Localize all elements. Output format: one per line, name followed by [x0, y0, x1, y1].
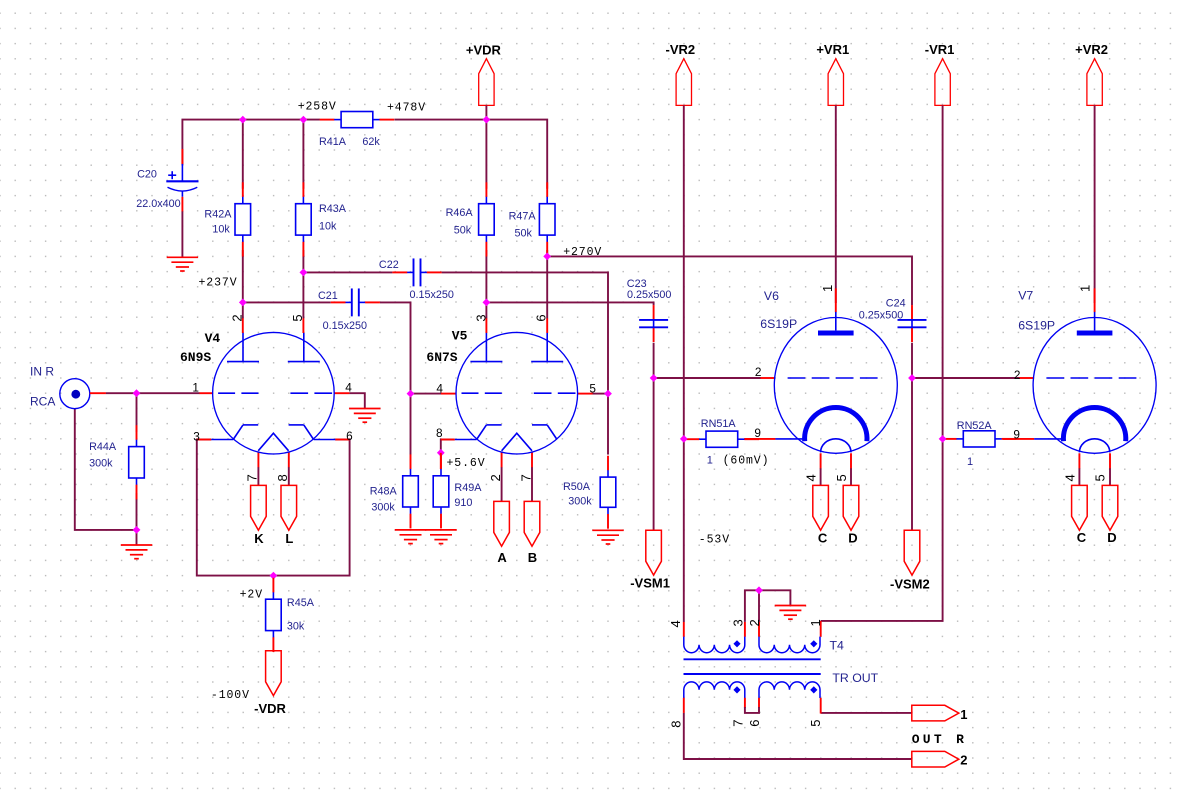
svg-text:4: 4 — [668, 620, 683, 627]
svg-text:910: 910 — [454, 497, 472, 509]
svg-text:5: 5 — [808, 720, 823, 727]
svg-text:3: 3 — [473, 314, 488, 321]
node V6 pin 5 stub — [850, 453, 852, 468]
power flag -VR1 — [925, 42, 955, 106]
ground RCA / R44A — [121, 545, 152, 559]
wire B leg — [531, 467, 533, 502]
junction RN51A / -VR2 — [680, 435, 688, 443]
wire node to -VSM2 flag — [911, 378, 913, 530]
wire node +237V to C21 — [243, 301, 331, 303]
svg-text:+270V: +270V — [563, 246, 602, 259]
svg-text:-100V: -100V — [211, 689, 250, 702]
lead V4 pin 6 — [314, 439, 336, 441]
svg-text:8: 8 — [436, 426, 443, 440]
svg-text:+5.6V: +5.6V — [447, 457, 486, 470]
svg-text:RCA: RCA — [30, 394, 55, 408]
junction +237V — [239, 299, 247, 307]
svg-text:7: 7 — [518, 474, 533, 481]
svg-text:2: 2 — [960, 752, 967, 767]
node V6 pin 2 stub — [761, 377, 775, 379]
svg-text:-VSM2: -VSM2 — [890, 576, 930, 591]
flag D V6 — [843, 485, 859, 545]
junction RCA input — [133, 389, 141, 397]
junction bus R43A — [300, 116, 308, 124]
wire V6 heater leg 5 — [850, 468, 852, 485]
flag L — [281, 485, 297, 546]
svg-text:300k: 300k — [371, 502, 395, 514]
wire +VR2 to V7 pin 1 — [1094, 105, 1096, 303]
svg-text:V6: V6 — [764, 289, 779, 303]
svg-text:IN R: IN R — [30, 364, 54, 378]
svg-text:22.0x400: 22.0x400 — [136, 198, 180, 210]
node V7 pin 2 stub — [1019, 377, 1033, 379]
svg-text:R42A: R42A — [204, 209, 232, 221]
wire node to V7 pin 2 — [912, 377, 1020, 379]
node V6 pin 1 stub — [835, 288, 837, 312]
wire T4 pin 2 from ground node — [758, 590, 760, 622]
svg-text:R47A: R47A — [509, 211, 537, 223]
wire V4 pin 3 loop — [197, 440, 274, 576]
junction V5 pin8/R49A — [437, 449, 445, 457]
flag C V7 — [1072, 485, 1088, 544]
node V7 pin 1 stub — [1094, 288, 1096, 312]
lead V5 pin 8 — [455, 439, 477, 441]
wire ground node to T4 ground — [759, 590, 790, 605]
resistor R49A — [433, 454, 482, 528]
node V4 pin 1 stub — [199, 392, 213, 394]
capacitor C23 — [627, 278, 672, 342]
resistor RN52A — [942, 420, 1017, 447]
svg-text:8: 8 — [668, 721, 683, 728]
wire node to R50A — [607, 394, 609, 455]
svg-text:1: 1 — [967, 456, 973, 468]
svg-text:4: 4 — [436, 381, 443, 395]
wire +270V node to V5 pin 6 — [546, 256, 548, 318]
wire C22 to V5 pin 5 node — [442, 272, 608, 393]
svg-text:+VR2: +VR2 — [1075, 42, 1108, 57]
junction C23 node — [650, 374, 658, 382]
svg-text:RN51A: RN51A — [701, 418, 737, 430]
junction +270V R47A — [543, 253, 551, 261]
flag D V7 — [1102, 485, 1118, 544]
svg-text:4: 4 — [345, 380, 352, 394]
wire T4 pin 3 to ground node — [745, 590, 759, 622]
svg-text:+258V: +258V — [298, 100, 337, 113]
wire node to V6 pin 2 — [654, 377, 761, 379]
junction bus +VDR — [483, 116, 491, 124]
svg-text:5: 5 — [834, 474, 849, 481]
svg-text:-VR2: -VR2 — [665, 42, 695, 57]
node V7 pin 9 stub — [1003, 438, 1034, 440]
phase dot T4 primary 1 — [733, 640, 740, 647]
phase dot T4 primary 2 — [810, 640, 817, 647]
svg-text:+VR1: +VR1 — [816, 42, 849, 57]
svg-text:R43A: R43A — [319, 203, 347, 215]
node V5 pin 7 stub — [531, 452, 533, 468]
tube V7 6S19P — [1033, 312, 1156, 453]
wire V5 grid node to C23 — [486, 302, 653, 305]
svg-text:R45A: R45A — [287, 597, 315, 609]
svg-text:+237V: +237V — [199, 276, 238, 289]
svg-text:7: 7 — [245, 474, 260, 481]
capacitor C21 — [318, 288, 380, 331]
wire +478V bus to R47A — [394, 120, 547, 189]
resistor R44A — [89, 425, 144, 499]
node V5 pin 5 stub — [578, 393, 593, 395]
svg-text:C24: C24 — [886, 298, 906, 310]
wire R46A top feed — [485, 120, 487, 189]
flag OUT 2 — [912, 751, 968, 767]
wire C21 to V5 pin 4 node — [380, 302, 411, 393]
wire R42A bottom to node +237V — [242, 250, 244, 302]
wire R44A bottom to ground node — [136, 493, 138, 530]
wire node to -VSM1 flag — [653, 378, 655, 530]
power flag +VR2 — [1075, 42, 1108, 106]
resistor R43A — [296, 182, 347, 256]
resistor R42A — [204, 182, 250, 256]
svg-text:-VDR: -VDR — [254, 701, 286, 716]
power flag +VR1 — [816, 42, 849, 106]
node V5 pin 3 stub — [485, 318, 487, 333]
node V5 pin 8 stub — [441, 439, 455, 441]
svg-text:T4: T4 — [830, 639, 845, 653]
node R49A top stub — [440, 453, 442, 469]
svg-text:K: K — [254, 531, 264, 546]
node V6 pin 4 stub — [820, 453, 822, 468]
wire C20 bottom to ground — [181, 211, 183, 257]
svg-text:RN52A: RN52A — [957, 420, 993, 432]
svg-text:R46A: R46A — [446, 207, 474, 219]
phase dot T4 secondary 1 — [733, 686, 740, 693]
svg-text:4: 4 — [804, 474, 819, 481]
svg-text:OUT R: OUT R — [912, 732, 968, 747]
node V4 pin 4 stub — [334, 392, 349, 394]
svg-text:6: 6 — [747, 720, 762, 727]
svg-text:+478V: +478V — [387, 102, 426, 115]
svg-text:6: 6 — [534, 314, 549, 321]
ground T4 — [775, 606, 806, 620]
resistor R48A — [370, 454, 419, 528]
svg-text:R48A: R48A — [370, 485, 398, 497]
svg-text:2: 2 — [755, 365, 762, 379]
wire +VR1 to V6 pin 1 — [835, 105, 837, 303]
svg-text:6: 6 — [346, 429, 353, 443]
resistor R45A — [266, 578, 315, 652]
wire -VR2 net vertical — [683, 105, 685, 622]
wire R46A bottom to V5 pin 3 — [485, 250, 487, 319]
svg-text:(60mV): (60mV) — [723, 455, 770, 468]
svg-text:D: D — [848, 531, 857, 546]
wire V4 pin 4 to ground — [349, 393, 364, 408]
svg-text:V4: V4 — [205, 331, 221, 346]
ground C20 — [167, 257, 198, 271]
wire A leg — [501, 467, 503, 502]
lead V7 pin 9 — [1034, 438, 1064, 440]
svg-text:1: 1 — [707, 455, 713, 467]
tube V4 6N9S — [213, 332, 335, 454]
svg-text:1: 1 — [960, 707, 967, 722]
svg-text:9: 9 — [1013, 428, 1020, 442]
svg-text:8: 8 — [275, 474, 290, 481]
svg-text:-VSM1: -VSM1 — [630, 575, 670, 590]
tube V5 6N7S — [456, 332, 578, 454]
svg-text:2: 2 — [747, 619, 762, 626]
wire T4 pin 8 to OUT 2 — [684, 713, 912, 759]
svg-text:0.25x500: 0.25x500 — [859, 310, 903, 322]
wire RCA shield to ground node — [75, 409, 137, 530]
wire node to R48A — [410, 394, 412, 455]
svg-text:A: A — [497, 550, 507, 565]
capacitor C24 — [859, 298, 927, 343]
wire C23 bottom to node — [653, 343, 655, 378]
wire V5 pin 8 to R49A — [441, 440, 455, 453]
wire V4 plate node to C22 — [303, 271, 392, 273]
junction bus R42A — [239, 116, 247, 124]
junction V5 pin3 node — [483, 299, 491, 307]
wire +258V bus top — [182, 120, 320, 166]
wire RN51A junction feed — [684, 438, 685, 440]
svg-text:30k: 30k — [287, 620, 305, 632]
ground V4 pin 4 — [349, 409, 380, 423]
flag K — [251, 485, 267, 546]
svg-text:-53V: -53V — [699, 533, 730, 546]
wire T4 pin 5 to OUT 1 — [821, 712, 913, 714]
power flag -VDR — [254, 651, 286, 716]
svg-text:R49A: R49A — [454, 482, 482, 494]
node V4 pin 5 stub — [302, 318, 304, 333]
resistor R41A — [319, 112, 394, 148]
junction RN52A / -VR1 — [939, 435, 947, 443]
svg-text:6S19P: 6S19P — [760, 317, 797, 331]
svg-text:0.15x250: 0.15x250 — [410, 289, 454, 301]
capacitor C22 — [379, 258, 454, 300]
svg-text:TR OUT: TR OUT — [832, 671, 878, 685]
wire V6 heater leg 4 — [820, 468, 822, 485]
svg-text:C: C — [818, 531, 828, 546]
transformer T4 — [684, 621, 821, 714]
resistor R47A — [509, 182, 555, 256]
resistor RN51A — [685, 418, 760, 447]
svg-text:4: 4 — [1062, 474, 1077, 481]
junction R43A C22 — [300, 269, 308, 277]
flag -VSM1 — [630, 530, 670, 590]
wire node +237V to V4 pin 2 — [242, 302, 244, 318]
wire V7 heater leg 4 — [1078, 468, 1080, 485]
svg-text:0.25x500: 0.25x500 — [627, 289, 671, 301]
svg-text:2: 2 — [1014, 368, 1021, 382]
svg-text:62k: 62k — [362, 136, 380, 148]
wire K leg — [257, 467, 259, 486]
svg-text:D: D — [1107, 530, 1116, 545]
svg-text:3: 3 — [731, 619, 746, 626]
node V4 pin 6 stub — [335, 439, 349, 441]
svg-text:1: 1 — [820, 285, 835, 292]
svg-text:R50A: R50A — [563, 481, 591, 493]
svg-text:+2V: +2V — [240, 589, 263, 602]
wire V4 pin 6 loop — [273, 440, 349, 576]
power flag -VR2 — [665, 42, 695, 106]
junction C24 node — [908, 374, 916, 382]
capacitor C20 — [136, 149, 198, 212]
wire +270V rail — [547, 250, 912, 305]
connector RCA IN R — [30, 364, 106, 408]
node V4 pin 3 stub — [197, 439, 212, 441]
svg-text:5: 5 — [1092, 474, 1107, 481]
svg-text:+VDR: +VDR — [466, 42, 502, 57]
wire node to V5 pin 4 — [411, 393, 442, 395]
node V5 pin 4 stub — [441, 393, 456, 395]
wire node to R44A — [136, 393, 138, 432]
node V4 pin 2 stub — [242, 318, 244, 333]
ground R50A — [592, 530, 623, 544]
flag B — [524, 501, 540, 564]
svg-text:C21: C21 — [318, 290, 338, 302]
svg-text:3: 3 — [193, 429, 200, 443]
wire V7 heater leg 5 — [1109, 468, 1111, 485]
wire node to V4 pin 5 — [302, 272, 304, 318]
wire RCA to node — [106, 392, 137, 394]
svg-text:9: 9 — [754, 426, 761, 440]
node V6 pin 9 stub — [744, 438, 775, 440]
svg-text:0.15x250: 0.15x250 — [323, 320, 367, 332]
wire RN52A junction feed — [943, 438, 944, 440]
tube V6 6S19P — [774, 312, 897, 453]
resistor R46A — [446, 182, 495, 256]
svg-text:6N7S: 6N7S — [426, 350, 457, 365]
svg-text:50k: 50k — [515, 228, 533, 240]
ground R48A — [395, 530, 426, 544]
junction V5 pin4 node — [407, 390, 415, 398]
node V5 pin 6 stub — [546, 318, 548, 333]
lead V6 pin 9 — [775, 438, 805, 440]
power flag +VDR — [466, 42, 502, 105]
flag OUT 1 — [912, 705, 968, 722]
node V5 pin 2 stub — [501, 452, 503, 468]
node V4 pin 7 stub — [257, 452, 259, 468]
svg-text:B: B — [528, 550, 537, 565]
svg-text:10k: 10k — [212, 223, 230, 235]
svg-text:6S19P: 6S19P — [1018, 319, 1055, 333]
wire R42A top feed — [242, 120, 244, 189]
ground R49A — [425, 530, 456, 544]
svg-text:L: L — [285, 531, 293, 546]
svg-text:-VR1: -VR1 — [925, 42, 955, 57]
svg-text:1: 1 — [192, 380, 199, 394]
lead V4 pin 3 — [211, 439, 233, 441]
svg-text:5: 5 — [290, 314, 305, 321]
flag A — [494, 501, 510, 564]
svg-text:1: 1 — [1078, 285, 1093, 292]
phase dot T4 secondary 2 — [810, 686, 817, 693]
svg-text:V5: V5 — [452, 328, 468, 343]
junction V5 pin5 node — [604, 390, 612, 398]
junction T4 center tap — [755, 586, 763, 594]
node V7 pin 5 stub — [1109, 453, 1111, 468]
wire L leg — [288, 467, 290, 486]
svg-text:50k: 50k — [454, 224, 472, 236]
svg-text:C: C — [1077, 530, 1087, 545]
wire R43A top feed — [302, 120, 304, 189]
wire C24 bottom to node — [911, 343, 913, 378]
svg-text:2: 2 — [230, 314, 245, 321]
svg-text:1: 1 — [808, 619, 823, 626]
svg-text:300k: 300k — [568, 495, 592, 507]
flag -VSM2 — [890, 530, 930, 591]
junction V4 grid box node — [270, 572, 278, 580]
junction input ground — [133, 526, 141, 534]
node V4 pin 8 stub — [288, 452, 290, 468]
wire ground node stub — [136, 530, 138, 546]
flag C V6 — [813, 485, 829, 545]
svg-text:7: 7 — [731, 720, 746, 727]
wire R43A bottom to node — [302, 250, 304, 272]
svg-text:6N9S: 6N9S — [180, 350, 211, 365]
svg-text:V7: V7 — [1018, 289, 1033, 303]
svg-text:C20: C20 — [137, 168, 157, 180]
wire +VDR flag to bus — [485, 105, 487, 119]
resistor R50A — [563, 456, 616, 529]
svg-text:2: 2 — [488, 474, 503, 481]
svg-text:R41A: R41A — [319, 136, 347, 148]
svg-text:R44A: R44A — [89, 441, 117, 453]
svg-text:10k: 10k — [319, 221, 337, 233]
node V7 pin 4 stub — [1078, 453, 1080, 468]
svg-text:5: 5 — [589, 381, 596, 395]
svg-text:C22: C22 — [379, 259, 399, 271]
wire -VR1 to T4 pin 1 — [821, 105, 943, 621]
wire V5 pin 5 link — [592, 393, 608, 395]
wire node to V4 pin 1 — [137, 392, 200, 394]
svg-text:300k: 300k — [89, 457, 113, 469]
